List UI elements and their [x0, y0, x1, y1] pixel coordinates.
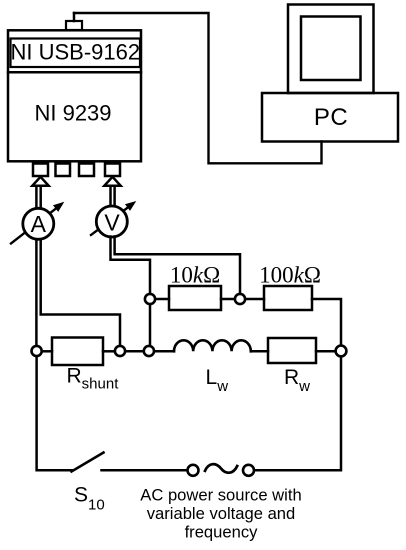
- svg-text:100kΩ: 100kΩ: [259, 263, 321, 288]
- svg-text:V: V: [104, 210, 120, 236]
- DAQ box NI USB-9162: [8, 30, 141, 161]
- wire n1 to Rshunt: [43, 350, 52, 353]
- wire A right lead down-right-down: [41, 240, 120, 346]
- wire switch to AC source: [102, 469, 188, 472]
- arrow into connector 1: [32, 177, 48, 186]
- svg-text:frequency: frequency: [185, 523, 259, 542]
- svg-text:AC power source with: AC power source with: [140, 486, 301, 505]
- divider: [8, 71, 141, 74]
- node n3: [144, 346, 154, 356]
- svg-text:10kΩ: 10kΩ: [170, 263, 220, 288]
- wire A left lead down: [35, 240, 38, 346]
- wire USB stub: [73, 13, 76, 21]
- voltmeter V1: [96, 206, 127, 237]
- connector square 1: [33, 164, 48, 177]
- node n2: [115, 346, 125, 356]
- PC base: [262, 93, 398, 142]
- wire n2 to n3: [126, 350, 142, 353]
- node n5: [235, 294, 245, 304]
- wire n4 to 10k: [156, 298, 169, 301]
- arrow into connector 4: [104, 177, 120, 186]
- wire pair A meter to DAQ: [35, 186, 38, 209]
- svg-text:NI 9239: NI 9239: [34, 101, 111, 126]
- AC source terminal right: [243, 465, 254, 476]
- ammeter needle: [11, 207, 58, 243]
- svg-text:A: A: [31, 211, 47, 237]
- wire inductor to Rw: [251, 350, 268, 353]
- wire pair V meter to DAQ: [109, 186, 112, 207]
- svg-text:NI USB-9162: NI USB-9162: [10, 40, 140, 65]
- wire 100k to n6: [312, 299, 341, 345]
- wire V left lead to node n4: [111, 237, 151, 293]
- AC source terminal left: [188, 465, 199, 476]
- svg-text:PC: PC: [314, 104, 348, 131]
- switch S10 blade: [72, 453, 104, 472]
- resistor Rshunt: [52, 338, 103, 366]
- connector square 2: [56, 164, 71, 177]
- AC source tilde: [205, 464, 237, 473]
- PC screen: [301, 17, 361, 81]
- resistor 100k: [264, 286, 312, 310]
- wire Rw to n6: [316, 350, 335, 353]
- node n6: [336, 346, 347, 357]
- wire Rshunt to n2: [103, 350, 114, 353]
- wire n3 to inductor: [155, 350, 174, 353]
- ammeter A1: [23, 208, 54, 239]
- node n1: [31, 346, 41, 356]
- wire 10k to n5: [221, 298, 234, 301]
- wire n4 down to n3: [149, 305, 152, 345]
- USB connector: [66, 21, 82, 30]
- wire DAQ USB to PC: [74, 13, 322, 163]
- PC monitor: [288, 5, 374, 94]
- connector square 4: [105, 164, 120, 177]
- svg-text:variable voltage and: variable voltage and: [147, 504, 296, 523]
- wire V right lead to node n5: [115, 237, 240, 293]
- voltmeter needle: [91, 206, 130, 235]
- label box: [11, 39, 141, 68]
- connector square 3: [79, 164, 94, 177]
- wire n5 to 100k: [246, 298, 264, 301]
- wire n1 down to switch: [37, 358, 72, 471]
- resistor 10k: [169, 286, 221, 310]
- wire AC source to right riser: [254, 357, 341, 470]
- inductor Lw: [174, 340, 251, 351]
- resistor Rw: [268, 338, 316, 363]
- node n4: [145, 294, 155, 304]
